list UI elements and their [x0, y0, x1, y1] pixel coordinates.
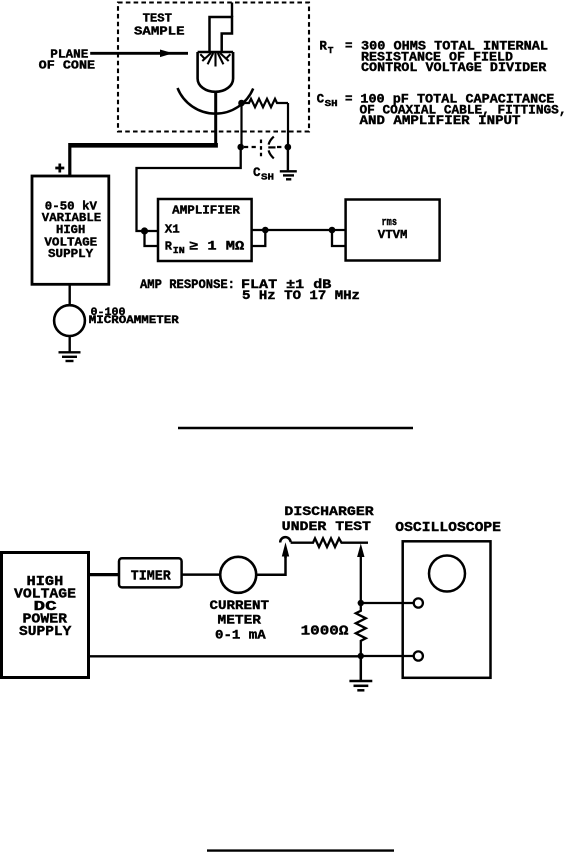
amplifier labels — [165, 204, 245, 256]
node capacitor left dot — [237, 144, 244, 151]
dashed enclosure (test chamber) — [118, 3, 309, 132]
amplifier input shield stub — [145, 231, 159, 246]
svg-text:R: R — [319, 40, 327, 54]
wire junction down to capacitor left node — [240, 103, 242, 147]
electron spray lines inside bulb — [200, 53, 230, 67]
arrow pointing to test sample — [90, 50, 188, 58]
heavy wire to supply plus terminal — [70, 143, 218, 176]
label AMP RESPONSE — [140, 278, 360, 303]
svg-text:=: = — [345, 93, 353, 107]
bottom separator line — [207, 849, 394, 851]
probe arrow right — [357, 544, 364, 604]
wire timer to current meter — [182, 573, 221, 576]
VTVM input connector dot — [329, 227, 336, 234]
plus terminal symbol — [55, 164, 64, 173]
VTVM box — [346, 200, 440, 261]
wire supply to microammeter — [68, 284, 70, 305]
svg-text:0-1 mA: 0-1 mA — [215, 627, 266, 642]
svg-text:UNDER TEST: UNDER TEST — [282, 519, 372, 534]
amplifier input connector dot — [141, 227, 148, 234]
svg-text:1000Ω: 1000Ω — [301, 624, 349, 640]
microammeter M1 — [54, 305, 85, 336]
label CSH annotation — [317, 93, 567, 129]
wire node to oscilloscope input 1 — [361, 602, 414, 604]
label TEST SAMPLE — [134, 12, 185, 39]
oscilloscope terminal 1 — [414, 598, 423, 607]
svg-text:SUPPLY: SUPPLY — [19, 624, 72, 640]
svg-text:=: = — [345, 40, 353, 54]
resistor 1000 ohm — [356, 603, 366, 655]
svg-text:AMPLIFIER: AMPLIFIER — [172, 204, 241, 218]
wire supply to timer — [89, 573, 120, 576]
svg-text:C: C — [253, 166, 261, 180]
svg-text:CURRENT: CURRENT — [210, 598, 270, 613]
label TIMER — [131, 569, 171, 585]
power supply labels — [14, 574, 76, 640]
high voltage supply box — [32, 176, 109, 284]
oscilloscope CRT screen — [429, 556, 465, 592]
svg-text:5 Hz TO 17 MHz: 5 Hz TO 17 MHz — [242, 289, 360, 303]
wire tube bottom down to heavy bus — [214, 92, 217, 146]
current meter M2 — [220, 557, 256, 593]
resistor RT (300 ohm divider) — [242, 99, 289, 107]
label OSCILLOSCOPE — [395, 520, 501, 536]
svg-text:CONTROL VOLTAGE DIVIDER: CONTROL VOLTAGE DIVIDER — [361, 61, 547, 75]
svg-text:C: C — [317, 93, 325, 107]
svg-text:AND AMPLIFIER INPUT: AND AMPLIFIER INPUT — [360, 114, 522, 128]
svg-text:TEST: TEST — [143, 12, 172, 26]
svg-text:SUPPLY: SUPPLY — [48, 247, 94, 261]
discharger resistor element — [291, 538, 368, 547]
svg-text:≥ 1 MΩ: ≥ 1 MΩ — [189, 240, 245, 254]
wire current meter to discharger probe — [256, 556, 285, 575]
high voltage dc power supply box — [2, 553, 89, 678]
wire from top of enclosure to tube neck — [231, 3, 233, 18]
svg-text:OF CONE: OF CONE — [39, 58, 95, 72]
svg-text:SH: SH — [325, 98, 338, 109]
wire capacitor left node to amplifier input — [137, 147, 241, 231]
node capacitor right dot — [285, 144, 292, 151]
discharger hook terminal — [280, 537, 290, 542]
svg-text:VTVM: VTVM — [378, 228, 408, 242]
label DISCHARGER UNDER TEST — [282, 504, 374, 534]
wire RT right end down to shield node — [287, 103, 289, 147]
node A junction dot on arc — [238, 100, 245, 107]
svg-text:T: T — [328, 45, 334, 56]
ground below microammeter — [59, 352, 81, 361]
wire microammeter to ground — [68, 336, 70, 352]
test sample tube neck — [210, 17, 233, 52]
amplifier output shield stub — [252, 230, 266, 246]
svg-text:METER: METER — [218, 612, 262, 627]
label 1000 ohm — [301, 624, 349, 640]
node top of 1000 ohm resistor — [358, 600, 364, 606]
svg-text:OSCILLOSCOPE: OSCILLOSCOPE — [395, 520, 501, 536]
wire power supply bottom to node — [89, 655, 361, 657]
wire node to oscilloscope input 2 — [361, 655, 414, 657]
capacitor CSH phantom (dashed) — [244, 137, 285, 159]
svg-text:SAMPLE: SAMPLE — [134, 25, 185, 39]
separator line between figures — [178, 427, 413, 429]
label RT annotation — [319, 40, 548, 76]
amplifier output connector dot — [262, 227, 269, 234]
wire amplifier output — [252, 229, 332, 231]
svg-text:TIMER: TIMER — [131, 569, 171, 585]
op-amp U1 amplifier box — [158, 199, 252, 261]
ground at CSH shield — [280, 147, 297, 179]
svg-text:AMP RESPONSE:: AMP RESPONSE: — [140, 278, 235, 292]
svg-text:DISCHARGER: DISCHARGER — [284, 504, 374, 519]
oscilloscope box — [403, 541, 491, 678]
oscilloscope terminal 2 — [414, 651, 423, 660]
svg-text:MICROAMMETER: MICROAMMETER — [89, 315, 179, 327]
svg-text:SH: SH — [261, 171, 274, 182]
VTVM labels — [378, 217, 408, 242]
label PLANE OF CONE — [39, 48, 95, 73]
supply labels — [42, 200, 101, 262]
VTVM input shield stub — [332, 230, 346, 246]
test sample tube bulb — [198, 52, 234, 92]
svg-text:IN: IN — [173, 245, 185, 256]
timer box — [119, 558, 182, 587]
svg-text:R: R — [165, 240, 173, 254]
label microammeter — [89, 307, 179, 327]
node bottom of 1000 ohm resistor — [358, 653, 364, 659]
probe arrow left (discharger contact) — [282, 542, 289, 558]
plane of cone arc — [178, 88, 254, 114]
label current meter — [210, 598, 270, 643]
svg-text:X1: X1 — [165, 223, 180, 237]
label CSH at capacitor — [253, 166, 274, 182]
ground below resistor — [349, 656, 372, 690]
